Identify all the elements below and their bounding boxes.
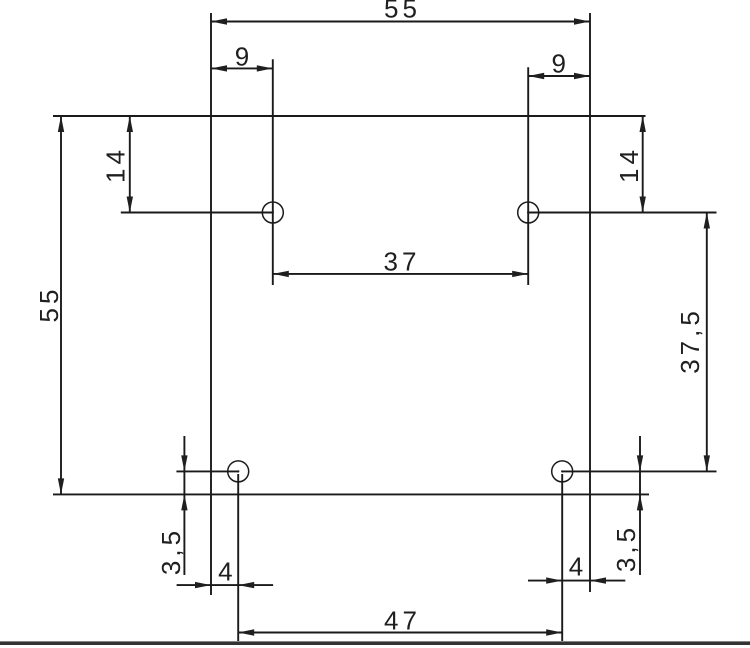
svg-text:4: 4 xyxy=(569,552,587,582)
svg-text:3,5: 3,5 xyxy=(611,524,641,572)
svg-text:14: 14 xyxy=(614,146,644,183)
svg-text:4: 4 xyxy=(218,557,236,587)
svg-text:9: 9 xyxy=(235,41,253,71)
svg-text:55: 55 xyxy=(384,0,421,24)
svg-text:55: 55 xyxy=(34,286,64,323)
svg-text:14: 14 xyxy=(101,146,131,183)
svg-text:37: 37 xyxy=(384,247,421,277)
svg-text:3,5: 3,5 xyxy=(156,527,186,575)
svg-text:9: 9 xyxy=(551,49,569,79)
svg-text:47: 47 xyxy=(384,606,421,636)
svg-text:37,5: 37,5 xyxy=(675,307,705,374)
